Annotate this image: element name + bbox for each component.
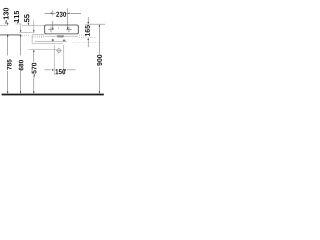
dimension 150 ext left xyxy=(53,45,55,75)
node L2a level line xyxy=(0,33,21,35)
node L3a level line xyxy=(35,40,67,42)
floor line xyxy=(2,94,104,96)
node L2b level line xyxy=(0,34,22,36)
label 165 xyxy=(85,25,90,36)
drain symbol cross xyxy=(56,48,62,54)
wire xyxy=(0,8,105,94)
dimension 165 shaft lower xyxy=(87,40,89,47)
arrow 785 down floor xyxy=(7,92,9,94)
dimension 570 shaft xyxy=(33,52,35,92)
center dot xyxy=(58,27,59,28)
arrow 680 up xyxy=(20,35,22,37)
dimension 680 shaft xyxy=(20,37,22,92)
arrow 150 left xyxy=(52,69,54,71)
dimension 130 shaft xyxy=(7,22,9,23)
label 900 xyxy=(97,55,102,66)
dimension 115 lower shaft xyxy=(20,24,22,30)
label 570 xyxy=(32,63,37,78)
node L1 level line rim-top xyxy=(0,24,45,26)
arrow 55 down xyxy=(28,23,30,25)
step vertical xyxy=(31,35,33,43)
drain flange xyxy=(58,35,64,37)
bolt cross left xyxy=(52,39,54,41)
dotted line B xyxy=(79,37,96,39)
dimension 230 ext left xyxy=(52,10,54,28)
arrow 900 down floor xyxy=(99,92,101,94)
node drain level line xyxy=(28,49,57,51)
dimension 230 ext right xyxy=(67,8,69,27)
dotted line C xyxy=(72,41,103,43)
washbasin slab outline xyxy=(45,25,79,34)
arrow 165 down xyxy=(87,22,89,24)
node L3b level line xyxy=(32,42,63,44)
node L2b dashes xyxy=(22,34,29,36)
dimension 165 top level xyxy=(85,23,105,25)
dimension 785 shaft xyxy=(7,37,9,92)
arrow 230 right dropline xyxy=(67,28,69,30)
label 230 xyxy=(56,12,66,17)
tap hole cross right xyxy=(66,27,71,32)
drain symbol circle xyxy=(57,49,61,53)
dimension 230 line xyxy=(45,12,81,14)
arrow 230 left xyxy=(51,13,53,15)
hidden line under slab xyxy=(45,35,78,37)
label 55 xyxy=(24,14,29,22)
dimension 900 shaft xyxy=(98,26,100,91)
arrow 785 up xyxy=(7,34,9,36)
arrow 115 down xyxy=(17,22,19,24)
arrow 165 up xyxy=(87,38,89,40)
label 680 xyxy=(19,60,24,70)
label 785 xyxy=(7,59,12,69)
arrow 230 left dropline xyxy=(52,28,54,30)
arrow 680 down floor xyxy=(20,92,22,94)
dimension 150 line xyxy=(45,69,76,71)
bolt cross right xyxy=(63,39,65,41)
dimension 150 ext right xyxy=(63,45,65,75)
label 115 xyxy=(14,11,19,23)
node Lx level line xyxy=(19,31,34,33)
dimension 570 shaft upper xyxy=(33,20,35,31)
hatch ticks xyxy=(33,35,43,38)
tap hole cross left xyxy=(48,27,53,32)
arrow 130 down xyxy=(7,23,9,25)
arrow 570 down floor xyxy=(33,92,35,94)
label 150 xyxy=(55,69,65,74)
arrow 900 up xyxy=(99,24,101,26)
dimension 115 shaft xyxy=(17,21,19,23)
label 130 xyxy=(3,8,8,24)
arrow 230 right xyxy=(68,13,70,15)
dimension 115 tick xyxy=(16,23,23,25)
arrow 570 up xyxy=(33,50,35,52)
node L2c level line xyxy=(32,33,45,35)
dimension 55 shaft xyxy=(28,21,30,24)
dotted line A xyxy=(79,34,87,36)
dimension 165 shaft upper xyxy=(87,17,89,22)
arrow 150 right xyxy=(64,69,66,71)
arrow 115 lower down xyxy=(20,30,22,32)
arrow 570 upper down xyxy=(33,30,35,32)
